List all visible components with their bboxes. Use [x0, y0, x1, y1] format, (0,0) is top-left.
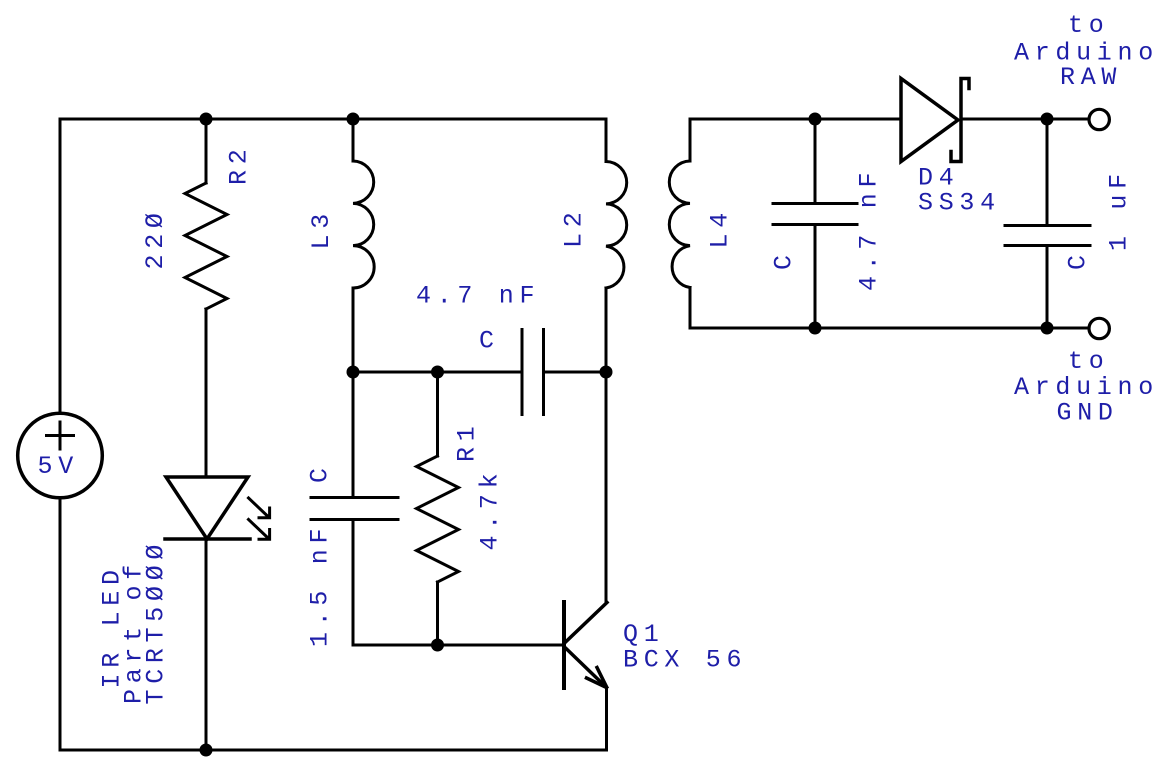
svg-text:C: C [479, 327, 500, 356]
svg-text:22Ø: 22Ø [141, 207, 170, 269]
svg-text:R2: R2 [225, 144, 254, 185]
svg-text:R1: R1 [453, 421, 482, 462]
svg-text:1.5 nF: 1.5 nF [306, 523, 335, 647]
svg-text:to: to [1068, 347, 1109, 376]
svg-text:BCX 56: BCX 56 [623, 646, 747, 675]
svg-text:RAW: RAW [1060, 63, 1122, 92]
svg-text:GND: GND [1057, 399, 1119, 428]
svg-text:L4: L4 [706, 207, 735, 248]
svg-text:C: C [306, 462, 335, 483]
svg-text:1 uF: 1 uF [1105, 168, 1134, 251]
svg-text:SS34: SS34 [918, 189, 1001, 218]
svg-text:L3: L3 [307, 208, 336, 249]
svg-text:L2: L2 [560, 207, 589, 248]
svg-text:TCRT5ØØØ: TCRT5ØØØ [142, 539, 171, 705]
svg-text:4.7 nF: 4.7 nF [416, 282, 540, 311]
svg-text:4.7k: 4.7k [476, 468, 505, 551]
svg-text:4.7 nF: 4.7 nF [855, 167, 884, 291]
svg-text:C: C [1064, 249, 1093, 270]
svg-text:to: to [1068, 11, 1109, 40]
svg-text:5V: 5V [38, 452, 79, 481]
svg-text:C: C [770, 249, 799, 270]
